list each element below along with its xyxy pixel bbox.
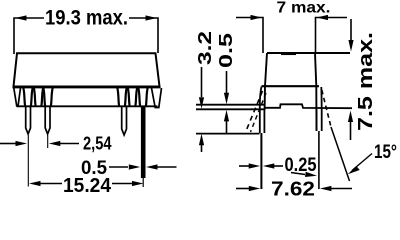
svg-text:19.3 max.: 19.3 max. (45, 7, 128, 30)
svg-text:15°: 15° (374, 142, 397, 163)
svg-text:0.25: 0.25 (285, 155, 317, 176)
svg-text:7.62: 7.62 (271, 179, 315, 201)
svg-text:0.5: 0.5 (216, 33, 236, 68)
svg-text:7.5 max.: 7.5 max. (355, 32, 377, 131)
svg-text:7 max.: 7 max. (277, 0, 331, 17)
svg-text:15.24: 15.24 (63, 175, 112, 197)
svg-text:3.2: 3.2 (195, 31, 215, 65)
svg-text:2,54: 2,54 (83, 134, 112, 154)
